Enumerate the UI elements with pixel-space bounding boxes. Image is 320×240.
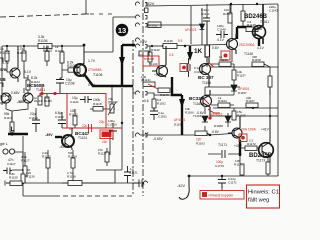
svg-text:R1162: R1162 bbox=[157, 102, 166, 106]
resistor R1172 bbox=[245, 146, 257, 151]
resistor R1116 bbox=[38, 93, 42, 105]
wire R1172 row bbox=[240, 142, 266, 158]
wire C1171 stub bbox=[221, 176, 223, 190]
arrow down rail stub bbox=[187, 52, 193, 61]
wire T1146 column bbox=[231, 20, 233, 62]
wire D1163 column bbox=[204, 107, 206, 135]
transistor T1101b bbox=[23, 93, 33, 103]
svg-text:4.1V: 4.1V bbox=[257, 46, 265, 50]
resistor R1102 bbox=[5, 46, 10, 72]
svg-text:D1966: D1966 bbox=[214, 124, 223, 128]
label box ws/rt bbox=[139, 51, 149, 56]
wire thick driver column bbox=[181, 95, 183, 135]
red overlay bbox=[40, 51, 280, 208]
resistor R1163 bbox=[195, 131, 210, 136]
svg-text:UF4001: UF4001 bbox=[174, 118, 186, 122]
svg-text:BC327: BC327 bbox=[189, 96, 204, 101]
capacitor C1116 bbox=[109, 123, 117, 140]
wire x270 column bbox=[269, 67, 271, 116]
svg-text:C17/16: C17/16 bbox=[107, 123, 117, 127]
connector pin pair y17 bbox=[136, 15, 147, 19]
svg-text:T1163: T1163 bbox=[193, 102, 202, 106]
resistor R1164 bbox=[218, 103, 230, 108]
wire red T1143 link bbox=[148, 84, 158, 89]
svg-text:0.6V: 0.6V bbox=[212, 46, 220, 50]
resistor R1108 base bbox=[62, 68, 80, 72]
svg-text:R1123: R1123 bbox=[42, 155, 51, 159]
svg-text:T1108: T1108 bbox=[93, 73, 102, 77]
svg-text:R1106: R1106 bbox=[38, 39, 48, 43]
diodes bbox=[200, 8, 238, 127]
wire x268 column low bbox=[267, 156, 269, 176]
svg-text:2SC2090A: 2SC2090A bbox=[239, 43, 255, 47]
svg-text:C1171: C1171 bbox=[228, 181, 237, 185]
svg-text:R1146: R1146 bbox=[164, 39, 173, 43]
capacitor C1121 bbox=[80, 96, 92, 103]
svg-text:1V: 1V bbox=[69, 127, 74, 131]
svg-text:+41V: +41V bbox=[234, 144, 243, 148]
wire preamp feed row bbox=[154, 94, 182, 96]
resistors bbox=[5, 4, 272, 186]
svg-text:T1124: T1124 bbox=[78, 136, 87, 140]
resistor R1103 bbox=[22, 46, 28, 93]
svg-text:13: 13 bbox=[118, 26, 126, 35]
transistors bbox=[1, 4, 273, 162]
resistor R1115 bbox=[45, 93, 49, 106]
resistor R1104 bbox=[26, 75, 30, 94]
svg-text:22µ: 22µ bbox=[99, 120, 105, 124]
svg-text:R1128: R1128 bbox=[67, 175, 76, 179]
red dot D1163 bbox=[209, 117, 211, 119]
red note box koppeln bbox=[200, 191, 244, 200]
resistor R1119 bbox=[90, 107, 115, 112]
svg-text:5.1V: 5.1V bbox=[24, 70, 32, 74]
svg-text:0B: 0B bbox=[0, 77, 6, 82]
svg-text:-42V: -42V bbox=[177, 184, 185, 188]
capacitor C1117 bbox=[3, 168, 12, 175]
resistor R1124 bbox=[71, 150, 75, 183]
wire x231 column bbox=[207, 4, 231, 16]
resistor R1166 bbox=[268, 76, 272, 95]
hook wire bottom bbox=[179, 176, 189, 199]
svg-text:5.5: 5.5 bbox=[178, 39, 183, 43]
svg-text:T1171: T1171 bbox=[218, 143, 227, 147]
thick signal path left bbox=[8, 27, 259, 156]
wire bottom solid bbox=[23, 195, 55, 197]
wire thick T1143 emitter bbox=[172, 77, 182, 95]
resistor R1158 bbox=[252, 62, 264, 67]
red marker box T1171 bbox=[239, 134, 247, 142]
svg-text:0.7V: 0.7V bbox=[88, 83, 96, 87]
resistor R1148 bbox=[246, 27, 262, 32]
wire dash-dot board edge right bbox=[142, 0, 144, 196]
wire R1171 column bbox=[240, 156, 242, 176]
svg-text:57B: 57B bbox=[0, 68, 7, 72]
svg-text:R1164: R1164 bbox=[218, 99, 227, 103]
wire thick output column bbox=[239, 140, 241, 156]
resistor R1142 bbox=[148, 46, 152, 66]
svg-text:R1115: R1115 bbox=[44, 99, 52, 103]
svg-text:1F: 1F bbox=[145, 131, 149, 135]
wire center column x113b bbox=[110, 87, 112, 155]
svg-text:R1125: R1125 bbox=[9, 176, 18, 180]
transistor T1108 bbox=[74, 46, 86, 77]
svg-text:R1127: R1127 bbox=[98, 152, 107, 156]
connector pin pair y25 bbox=[136, 23, 202, 27]
svg-text:R1122: R1122 bbox=[69, 113, 78, 117]
svg-text:Hinweis koppeln: Hinweis koppeln bbox=[209, 194, 234, 198]
wire T1171 row bbox=[208, 138, 240, 154]
svg-text:R1113: R1113 bbox=[4, 116, 13, 120]
svg-text:1112: 1112 bbox=[0, 94, 7, 98]
wire mid rail y108 bbox=[213, 107, 278, 109]
wire +42V rail bbox=[146, 4, 278, 6]
red marker box C1144 bbox=[180, 64, 188, 72]
red dot rail bbox=[41, 92, 43, 94]
resistor R1128 bbox=[68, 181, 82, 186]
svg-text:-0.63V: -0.63V bbox=[153, 137, 164, 141]
transistor T1101a bbox=[1, 93, 11, 103]
diode D1166 bbox=[225, 113, 231, 127]
resistor R1149 bbox=[241, 11, 245, 21]
wire diode column D1157 bbox=[205, 64, 234, 95]
red box T1143 bbox=[143, 56, 159, 66]
svg-text:fällt weg: fällt weg bbox=[248, 198, 269, 204]
svg-text:R1143: R1143 bbox=[160, 93, 169, 97]
svg-text:R1163: R1163 bbox=[196, 142, 205, 146]
wire rail to T1146 base bbox=[177, 44, 226, 46]
wire thick BD246 stub bbox=[258, 39, 260, 46]
capacitor C1108 bbox=[56, 78, 64, 94]
wire connector feed to pin bbox=[84, 17, 135, 64]
svg-text:C1144: C1144 bbox=[194, 70, 203, 74]
svg-text:UF4001: UF4001 bbox=[211, 113, 223, 117]
svg-text:R1117: R1117 bbox=[21, 159, 30, 163]
jack L circles bbox=[3, 149, 8, 154]
svg-text:gie L: gie L bbox=[0, 142, 8, 146]
resistor R1107 bbox=[45, 46, 49, 66]
wire bottom left rail bbox=[6, 182, 141, 184]
svg-text:220: 220 bbox=[138, 53, 143, 57]
resistor R1105 bbox=[60, 46, 64, 78]
resistor R1167 bbox=[246, 103, 258, 108]
svg-text:1K: 1K bbox=[194, 48, 203, 55]
wire right edge rail bbox=[277, 4, 279, 176]
svg-text:-39V: -39V bbox=[45, 133, 53, 137]
svg-text:C1121: C1121 bbox=[70, 100, 79, 104]
connector pin pair y46 bbox=[136, 44, 163, 48]
capacitor C1170 bbox=[222, 150, 225, 158]
svg-text:+41V: +41V bbox=[261, 128, 270, 132]
arrow down mid column bbox=[119, 57, 125, 66]
capacitors bbox=[3, 16, 228, 188]
svg-text:R1107: R1107 bbox=[43, 49, 53, 53]
transistor T1156 BC337 bbox=[200, 58, 211, 87]
svg-text:C1148: C1148 bbox=[217, 28, 226, 32]
svg-text:R1102: R1102 bbox=[0, 51, 10, 55]
svg-text:R1158: R1158 bbox=[252, 58, 261, 62]
label box ws/ge bbox=[148, 22, 161, 28]
wire mid rail y116 bbox=[210, 115, 278, 117]
wire vertical stub top bbox=[83, 0, 89, 14]
diode D1157 bbox=[231, 85, 237, 91]
svg-text:D1157: D1157 bbox=[238, 91, 247, 95]
svg-text:R1105: R1105 bbox=[55, 49, 64, 53]
svg-text:Hinweis: C11: Hinweis: C11 bbox=[248, 190, 280, 196]
connector pin pair y40 bbox=[136, 38, 140, 42]
svg-text:R1165: R1165 bbox=[237, 114, 246, 118]
capacitor C1131 bbox=[124, 166, 131, 183]
svg-text:R1126: R1126 bbox=[26, 175, 35, 179]
svg-text:BC560B: BC560B bbox=[144, 57, 155, 61]
connectors on board edge bbox=[133, 2, 202, 185]
red note box Hinweis bbox=[247, 185, 280, 208]
svg-text:5.7V: 5.7V bbox=[2, 61, 10, 65]
terminal mark left b bbox=[0, 83, 3, 87]
svg-text:-38V: -38V bbox=[17, 100, 25, 104]
resistor R1126 bbox=[21, 170, 25, 183]
svg-text:C1109: C1109 bbox=[29, 116, 38, 120]
resistor R1165 bbox=[232, 108, 236, 120]
svg-text:24n: 24n bbox=[102, 140, 108, 144]
svg-text:R1108: R1108 bbox=[67, 64, 77, 68]
red marker box T1146 bbox=[221, 51, 230, 60]
transistor T1173 BD245B bbox=[259, 116, 274, 162]
wire thick feedback bar bbox=[8, 133, 28, 135]
red highlight box center bbox=[67, 94, 106, 129]
black text labels bbox=[0, 1, 282, 204]
svg-text:+0.6V: +0.6V bbox=[154, 73, 164, 77]
wire thick vertical arrow column bbox=[121, 45, 123, 86]
transistor T1171 bbox=[228, 116, 242, 138]
connector pin pair y4 bbox=[136, 2, 147, 6]
wire mid rail y87 bbox=[205, 86, 240, 88]
svg-text:C1108: C1108 bbox=[65, 82, 75, 86]
red dot rail2 bbox=[54, 92, 56, 94]
svg-text:T1173: T1173 bbox=[256, 159, 265, 163]
svg-text:+42V: +42V bbox=[145, 1, 155, 6]
wire thick rail stub bbox=[189, 46, 191, 52]
svg-text:ws/ge: ws/ge bbox=[149, 24, 158, 28]
wire input column bbox=[22, 136, 24, 196]
svg-text:0.2V: 0.2V bbox=[140, 40, 148, 44]
wire dashed top boundary bbox=[0, 14, 86, 17]
wire x243 column bbox=[242, 4, 244, 27]
svg-text:C1117: C1117 bbox=[7, 162, 16, 166]
wire red base link bbox=[40, 87, 67, 94]
svg-text:D1163: D1163 bbox=[174, 123, 183, 127]
svg-text:0.6: 0.6 bbox=[144, 99, 149, 103]
svg-text:R1167: R1167 bbox=[246, 99, 255, 103]
svg-text:R1148: R1148 bbox=[247, 23, 256, 27]
capacitor C1148 bbox=[216, 31, 228, 38]
red texts bbox=[82, 28, 257, 198]
svg-text:T1156: T1156 bbox=[202, 81, 211, 85]
wire red BC337 stub bbox=[209, 63, 214, 67]
capacitor C1141 bbox=[203, 16, 210, 44]
resistor R1122 bbox=[73, 109, 77, 128]
resistor R1146 bbox=[163, 44, 177, 49]
wire diff emitters bbox=[6, 103, 36, 122]
svg-text:R1156: R1156 bbox=[219, 58, 228, 62]
wire thick to pin bbox=[122, 44, 135, 46]
wire thick T1108 out bbox=[84, 74, 133, 86]
svg-text:C1770: C1770 bbox=[215, 164, 224, 168]
resistor R1143 bbox=[158, 88, 170, 93]
svg-text:0,5: 0,5 bbox=[169, 53, 174, 57]
resistor R1117 bbox=[23, 152, 27, 183]
resistor R1171 bbox=[240, 164, 244, 175]
wire thick BC447 base bbox=[55, 136, 62, 138]
svg-text:R1172: R1172 bbox=[247, 142, 256, 146]
wire BC337 row bbox=[210, 64, 270, 67]
svg-text:R1124: R1124 bbox=[68, 155, 77, 159]
wire -42V rail bbox=[189, 175, 278, 177]
svg-text:L: L bbox=[11, 126, 15, 133]
wire BC327 row bbox=[211, 104, 234, 106]
trimmer P1103 bbox=[108, 102, 116, 115]
wire driver columns bbox=[191, 6, 207, 67]
transistor T1102 input bbox=[10, 46, 20, 82]
svg-text:0.65V: 0.65V bbox=[11, 91, 20, 95]
svg-text:C1131: C1131 bbox=[129, 171, 138, 175]
wire lower rail y135 bbox=[140, 134, 232, 136]
svg-text:R1171: R1171 bbox=[234, 163, 243, 167]
connector tick y10 bbox=[145, 8, 149, 13]
resistor R1157 bbox=[232, 70, 236, 80]
transistor T1146 2SC2090A bbox=[227, 34, 238, 54]
connector pin pair y135 bbox=[136, 133, 147, 137]
wire main left rail bbox=[2, 45, 84, 47]
svg-text:T1101: T1101 bbox=[36, 88, 45, 92]
svg-text:R1118: R1118 bbox=[93, 102, 102, 106]
badge 13 bbox=[116, 24, 129, 37]
capacitor red C1123 bbox=[89, 124, 92, 132]
capacitor C1144 bbox=[187, 58, 190, 77]
svg-text:C1113: C1113 bbox=[55, 115, 64, 119]
svg-text:2SA C09A: 2SA C09A bbox=[241, 128, 257, 132]
input jacks bbox=[3, 149, 15, 154]
svg-text:C1141: C1141 bbox=[201, 12, 210, 16]
capacitor C1171 bbox=[218, 176, 226, 188]
svg-text:T1161: T1161 bbox=[260, 20, 269, 24]
capacitor C1162 bbox=[150, 108, 158, 120]
wire bottom dashed bbox=[55, 195, 133, 197]
svg-text:(P1103: (P1103 bbox=[108, 100, 118, 104]
svg-text:4.1V: 4.1V bbox=[217, 38, 225, 42]
capacitor C1109 bbox=[32, 112, 40, 132]
svg-text:BC 337: BC 337 bbox=[198, 75, 214, 80]
svg-text:(R1141: (R1141 bbox=[141, 78, 151, 82]
svg-text:R1147: R1147 bbox=[223, 12, 232, 16]
wire dashed boundary right of stub bbox=[90, 13, 112, 15]
resistor R1123 bbox=[46, 150, 50, 183]
wire input row bbox=[12, 152, 30, 170]
wire mid rail y67 bbox=[210, 66, 278, 68]
svg-text:UF4001: UF4001 bbox=[185, 28, 197, 32]
svg-text:-0.6V: -0.6V bbox=[211, 130, 220, 134]
transistor T1163 BC327 bbox=[201, 90, 212, 116]
resistor R1147 bbox=[228, 4, 232, 23]
svg-text:T1143: T1143 bbox=[149, 62, 158, 66]
wire red BC327 stub bbox=[204, 99, 220, 113]
svg-text:R1103: R1103 bbox=[17, 51, 26, 55]
resistor R1106 bbox=[38, 44, 52, 49]
arrow down driver column bbox=[179, 99, 185, 108]
svg-text:1.7V: 1.7V bbox=[88, 59, 96, 63]
svg-text:R1114: R1114 bbox=[34, 99, 42, 103]
wire left vertical rail bbox=[1, 46, 3, 105]
svg-text:R1142: R1142 bbox=[151, 48, 160, 52]
resistor 1K bbox=[205, 45, 210, 62]
svg-text:T1146: T1146 bbox=[244, 52, 253, 56]
wire R1128 row bbox=[62, 170, 115, 183]
diode D111A bbox=[200, 8, 205, 45]
transistor T1124 BC447 bbox=[62, 128, 74, 150]
svg-text:C1143: C1143 bbox=[269, 9, 278, 13]
diode D1163 bbox=[202, 116, 208, 122]
capacitor C1113 bbox=[58, 112, 66, 128]
wire dash-dot board edge left bbox=[132, 40, 134, 196]
resistor R1113 bbox=[10, 112, 14, 136]
node dots bbox=[6, 3, 271, 184]
svg-text:C1162: C1162 bbox=[158, 115, 167, 119]
resistor R1141 bbox=[143, 82, 155, 87]
wire red bottom link bbox=[62, 127, 122, 129]
svg-text:ZTX694B: ZTX694B bbox=[88, 68, 101, 72]
resistor R1174 bbox=[266, 162, 270, 174]
svg-text:-40V: -40V bbox=[59, 145, 67, 149]
svg-text:22n: 22n bbox=[82, 124, 88, 128]
resistor R1156 bbox=[219, 62, 231, 67]
capacitor C1127 bbox=[133, 180, 142, 188]
svg-text:T1166: T1166 bbox=[193, 114, 202, 118]
resistor R1127 bbox=[105, 148, 109, 166]
resistor R1125 bbox=[5, 181, 22, 186]
wire y170 center bbox=[96, 169, 122, 171]
terminal mark left a bbox=[0, 58, 3, 62]
svg-text:R1157: R1157 bbox=[237, 74, 246, 78]
connector pin pair y183 bbox=[142, 181, 148, 185]
transistor T1161 BD246B bbox=[253, 4, 266, 44]
transistor T1143 bbox=[152, 46, 168, 77]
wire thick 2SC feed bbox=[237, 27, 252, 39]
connector pin pair y93 bbox=[133, 87, 154, 95]
resistor red replacement bbox=[100, 130, 113, 139]
wire center column x122 bbox=[121, 88, 123, 170]
resistor R1162 bbox=[152, 95, 156, 110]
